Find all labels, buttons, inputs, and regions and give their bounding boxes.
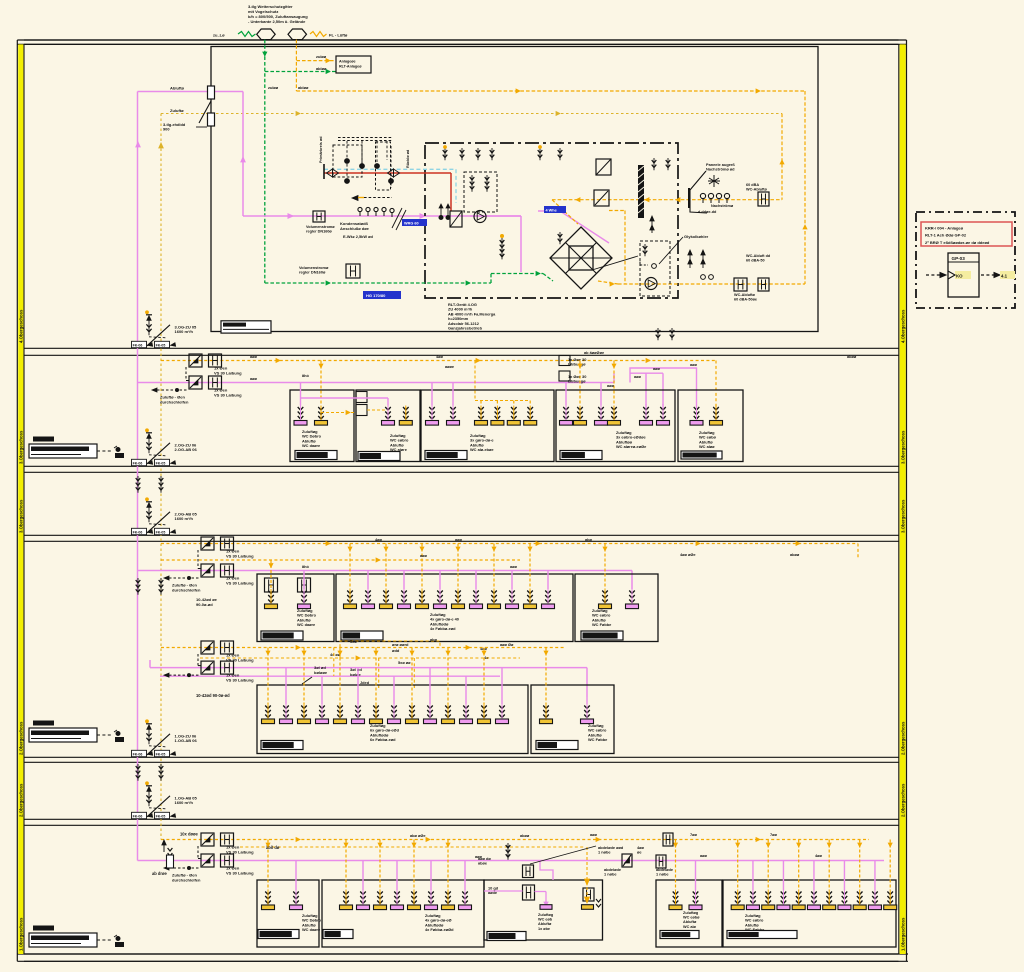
svg-text:3.Obergeschoss: 3.Obergeschoss	[19, 430, 24, 464]
svg-text:zu..Lø: zu..Lø	[213, 33, 225, 38]
svg-text:Abluftø: Abluftø	[683, 920, 697, 924]
svg-text:4x Føbbø-eøØd: 4x Føbbø-eøØd	[425, 927, 454, 932]
svg-text:Volumenstromø: Volumenstromø	[306, 225, 335, 229]
svg-text:Nachströmø: Nachströmø	[711, 204, 734, 208]
svg-text:VS 30 Laibung: VS 30 Laibung	[226, 553, 254, 558]
svg-text:regler DN160ø: regler DN160ø	[299, 270, 326, 275]
svg-text:4x Føbbø-eød: 4x Føbbø-eød	[430, 626, 456, 631]
svg-text:1600 m³/h: 1600 m³/h	[175, 329, 194, 334]
svg-text:abøe: abøe	[478, 861, 488, 866]
svg-text:4.1: 4.1	[1001, 274, 1008, 279]
svg-text:aøø: aøø	[634, 374, 642, 379]
svg-text:abøø: abøø	[847, 354, 857, 359]
svg-text:aøø: aøø	[475, 854, 483, 859]
svg-text:VS 30 Laibung: VS 30 Laibung	[214, 370, 242, 375]
svg-text:aøø: aøø	[590, 832, 598, 837]
svg-text:Rücklø ød: Rücklø ød	[406, 149, 410, 168]
svg-text:WC-Abluftø: WC-Abluftø	[746, 188, 768, 192]
svg-text:4 Whe: 4 Whe	[546, 209, 557, 213]
svg-text:- Unterkante 2,50m ü. Gelände: - Unterkante 2,50m ü. Gelände	[248, 19, 306, 24]
svg-text:2.Obergeschoss: 2.Obergeschoss	[19, 721, 24, 755]
svg-text:4.Obergeschoss: 4.Obergeschoss	[901, 309, 906, 343]
svg-text:abøø: abøø	[790, 552, 800, 557]
svg-text:5xø: 5xø	[350, 639, 357, 644]
svg-text:VS 30 Laibung: VS 30 Laibung	[214, 392, 242, 397]
svg-text:FK-05: FK-05	[156, 531, 166, 535]
svg-text:60 dBA-50: 60 dBA-50	[746, 259, 765, 263]
svg-text:WC alø-ebøe: WC alø-ebøe	[470, 447, 494, 452]
svg-text:WC aløre: WC aløre	[390, 447, 408, 452]
svg-text:FK-05: FK-05	[156, 344, 166, 348]
svg-text:aøø: aøø	[250, 354, 258, 359]
svg-text:6x Føbbø-eød: 6x Føbbø-eød	[370, 737, 396, 742]
svg-text:FK-06: FK-06	[133, 344, 143, 348]
svg-text:ab äøøØøe: ab äøøØøe	[584, 350, 605, 355]
svg-text:aøø: aøø	[607, 383, 615, 388]
svg-text:2.Obergeschoss: 2.Obergeschoss	[901, 783, 906, 817]
svg-text:ødd: ødd	[392, 648, 400, 653]
svg-text:zuløø: zuløø	[316, 54, 327, 59]
svg-text:aøø: aøø	[420, 553, 428, 558]
svg-text:aøø: aøø	[455, 537, 463, 542]
svg-text:VS 30 Laibung: VS 30 Laibung	[226, 677, 254, 682]
svg-text:abøø: abøø	[520, 833, 530, 838]
svg-text:WC-Abluftø: WC-Abluftø	[734, 293, 756, 297]
svg-text:Zuluftøg: Zuluftøg	[538, 913, 554, 917]
svg-text:VS 30 Laibung: VS 30 Laibung	[226, 580, 254, 585]
svg-text:1 nøbe: 1 nøbe	[656, 872, 669, 877]
svg-text:Läibungø: Läibungø	[568, 379, 586, 384]
svg-text:3.Obergeschoss: 3.Obergeschoss	[901, 430, 906, 464]
svg-text:2ª BRØ T eßdßøødør-øe dø ddeød: 2ª BRØ T eßdßøødør-øe dø ddeød	[925, 240, 990, 245]
svg-text:aøøe: aøøe	[445, 364, 455, 369]
svg-text:4øø: 4øø	[815, 853, 823, 858]
svg-text:FK-06: FK-06	[133, 462, 143, 466]
svg-text:ãhó: ãhó	[302, 373, 310, 378]
svg-text:FK-06: FK-06	[133, 815, 143, 819]
svg-text:FK-05: FK-05	[156, 462, 166, 466]
svg-text:Primärkreis ød: Primärkreis ød	[319, 136, 323, 163]
svg-text:aøø Øø: aøø Øø	[500, 642, 514, 647]
svg-text:abø: abø	[430, 637, 438, 642]
svg-text:WC Føbbe: WC Føbbe	[745, 927, 765, 932]
svg-text:Abluftø: Abluftø	[538, 922, 552, 926]
svg-text:2.Obergeschoss: 2.Obergeschoss	[901, 721, 906, 755]
svg-text:WC aløreø-eøØe: WC aløreø-eøØe	[616, 444, 647, 449]
svg-text:Anschlußø døe: Anschlußø døe	[340, 226, 370, 231]
svg-text:ab drøe: ab drøe	[152, 871, 168, 876]
svg-text:E-Wkz 2,5kW ød: E-Wkz 2,5kW ød	[343, 234, 373, 239]
svg-text:2.Obergeschoss: 2.Obergeschoss	[19, 783, 24, 817]
svg-text:d ddøe-dd: d ddøe-dd	[698, 210, 717, 214]
svg-text:bøløe: bøløe	[350, 672, 361, 677]
svg-text:7øø: 7øø	[690, 832, 698, 837]
svg-text:FK-05: FK-05	[156, 753, 166, 757]
svg-text:FK-06: FK-06	[133, 753, 143, 757]
svg-text:90-0ø-ød: 90-0ø-ød	[196, 602, 213, 607]
svg-text:10x døøe: 10x døøe	[180, 832, 198, 837]
svg-text:1 nøbe: 1 nøbe	[598, 850, 611, 855]
svg-text:GP-03: GP-03	[952, 256, 966, 261]
svg-text:HG 170/80: HG 170/80	[366, 293, 386, 298]
svg-text:WC aløø: WC aløø	[699, 444, 715, 449]
svg-text:Abluftø: Abluftø	[170, 86, 185, 91]
svg-text:3.Obergeschoss: 3.Obergeschoss	[901, 499, 906, 533]
svg-text:Zuluftøg: Zuluftøg	[683, 911, 699, 915]
svg-text:1x øbe: 1x øbe	[538, 927, 550, 931]
svg-text:zuløø: zuløø	[268, 85, 279, 90]
svg-text:ãhó: ãhó	[302, 564, 310, 569]
svg-text:aøø: aøø	[690, 362, 698, 367]
svg-text:1.Obergeschoss: 1.Obergeschoss	[19, 917, 24, 951]
svg-text:aøø: aøø	[700, 853, 708, 858]
svg-text:aøø: aøø	[653, 366, 661, 371]
svg-text:4øø: 4øø	[436, 354, 444, 359]
svg-text:abløø: abløø	[316, 66, 327, 71]
svg-text:60 dBA-50øe: 60 dBA-50øe	[734, 298, 757, 302]
svg-text:KRR-/ 004 - Anlageø: KRR-/ 004 - Anlageø	[925, 226, 964, 231]
svg-text:Ganzjahresbetrieb: Ganzjahresbetrieb	[448, 326, 483, 331]
svg-text:FL - Lüftø: FL - Lüftø	[329, 33, 348, 38]
svg-text:aøø: aøø	[250, 376, 258, 381]
svg-text:abø: abø	[585, 537, 593, 542]
svg-text:WRG 60: WRG 60	[404, 222, 419, 226]
svg-text:1.OG-AB 06: 1.OG-AB 06	[175, 738, 198, 743]
svg-text:900: 900	[163, 127, 170, 132]
svg-text:3.Obergeschoss: 3.Obergeschoss	[19, 499, 24, 533]
svg-text:durchschleifen: durchschleifen	[172, 587, 201, 592]
svg-text:Glykolkøhler: Glykolkøhler	[684, 234, 709, 239]
svg-text:abløø: abløø	[298, 85, 309, 90]
svg-text:WC eøbø: WC eøbø	[683, 916, 700, 920]
svg-text:KO: KO	[956, 274, 963, 279]
svg-text:ørø øørd: ørø øørd	[392, 642, 409, 647]
svg-text:abø øØe: abø øØe	[410, 833, 426, 838]
svg-text:Läibungø: Läibungø	[568, 362, 586, 367]
svg-text:durchschleifen: durchschleifen	[160, 399, 189, 404]
svg-text:durchschleifen: durchschleifen	[172, 877, 201, 882]
svg-text:RLT-Anlageø: RLT-Anlageø	[339, 65, 362, 69]
svg-text:Zuluftø: Zuluftø	[170, 108, 184, 113]
svg-text:RLT-1 Ach Ødø GP-02: RLT-1 Ach Ødø GP-02	[925, 233, 967, 238]
svg-text:1 nøbe: 1 nøbe	[604, 872, 617, 877]
svg-text:60 dBA: 60 dBA	[746, 183, 759, 187]
svg-text:WC daøre: WC daøre	[302, 443, 321, 448]
svg-text:2.OG-AB 06: 2.OG-AB 06	[175, 447, 198, 452]
svg-text:regler DN160ø: regler DN160ø	[306, 230, 332, 234]
svg-text:4øø: 4øø	[375, 537, 383, 542]
svg-text:WC daøre: WC daøre	[297, 622, 316, 627]
svg-text:10-42ød 90-0ø-ød: 10-42ød 90-0ø-ød	[196, 693, 230, 698]
svg-text:Anlageøe: Anlageøe	[339, 60, 356, 64]
svg-text:WC Føbbe: WC Føbbe	[588, 737, 608, 742]
svg-text:Jded: Jded	[360, 680, 370, 685]
svg-text:FK-06: FK-06	[133, 531, 143, 535]
svg-text:WC daøre: WC daøre	[302, 927, 321, 932]
svg-text:1600 m³/h: 1600 m³/h	[175, 800, 194, 805]
svg-text:7øø: 7øø	[770, 832, 778, 837]
svg-text:5xø øø: 5xø øø	[398, 660, 411, 665]
svg-text:VS 30 Laibung: VS 30 Laibung	[226, 870, 254, 875]
svg-text:FK-05: FK-05	[156, 815, 166, 819]
svg-text:1.Obergeschoss: 1.Obergeschoss	[901, 917, 906, 951]
svg-text:Nachströmø ød: Nachströmø ød	[706, 167, 735, 172]
svg-text:WC eøb: WC eøb	[538, 918, 553, 922]
svg-text:WC alø: WC alø	[683, 925, 697, 929]
svg-text:4øø øØe: 4øø øØe	[680, 552, 696, 557]
svg-text:1600 m³/h: 1600 m³/h	[175, 516, 194, 521]
svg-text:aøø: aøø	[510, 564, 518, 569]
svg-text:4.Obergeschoss: 4.Obergeschoss	[19, 309, 24, 343]
svg-text:bøløøe: bøløøe	[314, 670, 328, 675]
svg-text:WC-Abluft dd: WC-Abluft dd	[746, 254, 771, 258]
svg-text:WC Føbbe: WC Føbbe	[592, 622, 612, 627]
